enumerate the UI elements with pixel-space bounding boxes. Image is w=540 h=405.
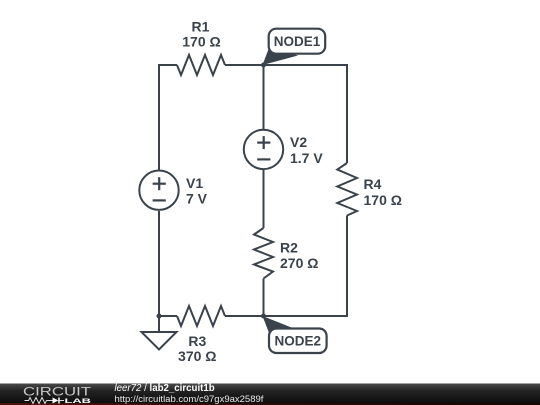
wire node B to R3 right pin: [225, 315, 264, 317]
wire R2 bottom to node B: [263, 279, 265, 317]
svg-text:R4: R4: [364, 176, 382, 192]
svg-text:V2: V2: [290, 134, 307, 150]
svg-text:370 Ω: 370 Ω: [178, 348, 216, 364]
resistor R1: [177, 55, 225, 75]
resistor R2: [254, 228, 273, 279]
ground: [158, 316, 160, 332]
svg-text:leer72 / lab2_circuit1b: leer72 / lab2_circuit1b: [115, 383, 215, 394]
CircuitLab logo resistor glyph: [25, 398, 53, 404]
svg-text:NODE2: NODE2: [275, 334, 322, 349]
wire top-left corner: R1 left pin to V1 top: [159, 65, 177, 170]
svg-text:170 Ω: 170 Ω: [182, 34, 220, 50]
voltage source V2 body: [244, 130, 283, 169]
V2 minus sign: [257, 158, 270, 160]
svg-text:NODE1: NODE1: [274, 34, 321, 49]
svg-text:LAB: LAB: [65, 398, 92, 405]
V2 plus sign: [257, 142, 270, 144]
svg-text:CIRCUIT: CIRCUIT: [23, 385, 92, 399]
voltage source V1 body: [139, 171, 178, 210]
junction dot node A (NODE1): [261, 63, 266, 68]
wire node A down to V2 top: [263, 65, 265, 130]
svg-text:http://circuitlab.com/c97gx9ax: http://circuitlab.com/c97gx9ax2589f: [115, 394, 264, 405]
junction dot node B (NODE2): [261, 314, 266, 319]
wire R1 right pin through node A to R4 top: [225, 65, 347, 163]
svg-text:R2: R2: [280, 240, 298, 256]
NODE2 callout tail: [263, 316, 300, 336]
V1 plus sign: [153, 183, 166, 185]
wire R3 left pin to ground junction: [159, 315, 177, 317]
CircuitLab logo diode glyph: [53, 398, 59, 404]
junction dot ground node: [157, 314, 162, 319]
NODE1 callout box: [269, 29, 326, 54]
svg-text:V1: V1: [186, 175, 203, 191]
NODE2 callout box: [269, 329, 327, 354]
NODE1 callout tail: [263, 47, 299, 66]
wire R4 bottom to node B: [264, 216, 348, 317]
resistor R4: [337, 163, 357, 216]
resistor R3: [177, 306, 225, 326]
svg-text:R3: R3: [188, 333, 206, 349]
svg-text:1.7 V: 1.7 V: [290, 150, 323, 166]
wire V2 bottom to R2 top: [263, 170, 265, 228]
svg-text:R1: R1: [192, 19, 210, 35]
svg-text:270 Ω: 270 Ω: [280, 255, 318, 271]
V1 minus sign: [153, 199, 166, 201]
svg-text:7 V: 7 V: [186, 191, 208, 207]
svg-text:170 Ω: 170 Ω: [364, 192, 402, 208]
wire V1 bottom to ground junction: [158, 211, 160, 316]
